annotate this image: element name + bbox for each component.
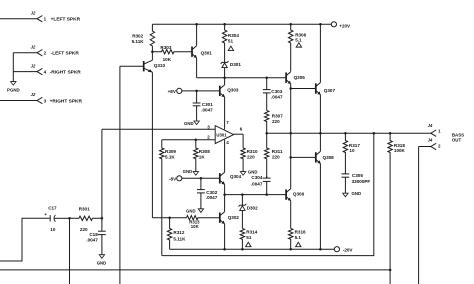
svg-text:R301: R301: [79, 207, 90, 212]
flag marker R314: [246, 242, 251, 246]
svg-text:C304: C304: [251, 175, 262, 180]
svg-text:GND: GND: [186, 209, 196, 214]
svg-text:GND: GND: [352, 191, 362, 196]
svg-text:Q302: Q302: [228, 215, 240, 220]
svg-text:100K: 100K: [394, 148, 406, 153]
svg-text:R314: R314: [246, 230, 257, 235]
svg-text:R307: R307: [272, 113, 283, 118]
ground below C18: [99, 255, 104, 259]
transistor Q304: [219, 173, 221, 183]
svg-text:OUT: OUT: [452, 138, 462, 143]
resistor R307: [265, 111, 269, 134]
svg-text:3: 3: [207, 124, 210, 129]
transistor Q307: [315, 83, 317, 93]
svg-text:U301: U301: [216, 133, 227, 138]
svg-text:Q306: Q306: [293, 192, 305, 197]
wire bottom bus: [0, 269, 390, 271]
svg-text:R310: R310: [247, 149, 258, 154]
svg-text:.0047: .0047: [251, 182, 263, 187]
flag marker R304: [228, 46, 233, 50]
svg-text:Q305: Q305: [294, 75, 306, 80]
svg-text:51: 51: [246, 235, 252, 240]
svg-text:J4: J4: [428, 138, 433, 143]
transistor Q306: [285, 189, 287, 199]
wire input from left edge: [0, 218, 50, 261]
resistor R308: [194, 140, 198, 172]
svg-text:10K: 10K: [191, 224, 200, 229]
ground below C301: [194, 121, 199, 125]
svg-text:C305: C305: [352, 173, 363, 178]
svg-text:6: 6: [240, 126, 243, 131]
svg-text:C303: C303: [271, 89, 282, 94]
wire U301 pin 6 output: [234, 133, 244, 135]
resistor R318: [388, 133, 392, 284]
svg-text:J2: J2: [31, 63, 36, 68]
node R301/C18: [101, 217, 104, 220]
resistor R314: [240, 228, 244, 249]
svg-text:-20V: -20V: [343, 247, 354, 252]
transistor Q305: [285, 73, 287, 83]
resistor R313: [187, 216, 220, 220]
svg-text:R302: R302: [132, 33, 143, 38]
svg-text:J4: J4: [428, 123, 433, 128]
svg-text:10: 10: [349, 148, 355, 153]
wire Q304 emitter bus: [225, 194, 287, 196]
wire Q301/D301/C303/Q305 bus: [197, 77, 287, 79]
svg-text:4: 4: [44, 70, 47, 75]
capacitor C304: [266, 176, 268, 178]
svg-text:1K: 1K: [199, 154, 206, 159]
resistor R311: [265, 133, 269, 178]
svg-text:Q308: Q308: [323, 155, 335, 160]
svg-text:R308: R308: [199, 149, 210, 154]
connector J2 pin 4: [37, 68, 42, 74]
svg-text:1: 1: [438, 129, 441, 134]
svg-text:GND: GND: [184, 121, 194, 126]
connector J4 pin 1: [431, 130, 436, 136]
capacitor C301: [196, 91, 198, 103]
svg-text:GND: GND: [248, 169, 258, 174]
wire J4-2 down: [418, 147, 420, 284]
transistor Q303: [219, 86, 221, 96]
svg-text:+20V: +20V: [339, 23, 350, 28]
node rail junctions: [195, 23, 198, 26]
svg-text:.0047: .0047: [86, 238, 98, 243]
transistor Q308: [315, 152, 317, 162]
wire -20V rail: [170, 248, 335, 250]
svg-text:-LEFT SPKR: -LEFT SPKR: [51, 51, 80, 57]
wire output rail to J4-1: [267, 132, 431, 134]
wire to J2 pin 1: [0, 18, 37, 20]
svg-text:J2: J2: [31, 92, 36, 97]
resistor R317: [343, 133, 347, 174]
wire Q310 base: [120, 65, 144, 67]
svg-text:220: 220: [80, 227, 88, 232]
svg-text:R317: R317: [349, 143, 360, 148]
svg-text:5.1K: 5.1K: [165, 154, 175, 159]
resistor R302: [150, 24, 154, 51]
svg-text:R312: R312: [173, 230, 184, 235]
wire J2-2 to PGND: [12, 53, 14, 82]
svg-text:D301: D301: [230, 62, 241, 67]
svg-text:+RIGHT SPKR: +RIGHT SPKR: [50, 98, 83, 104]
resistor R310: [242, 134, 244, 148]
svg-text:5.1: 5.1: [295, 38, 302, 43]
wire -8V to Q304 base: [182, 177, 220, 179]
svg-text:Q304: Q304: [230, 174, 242, 179]
wire Q310 base down to bottom edge: [119, 66, 121, 284]
wire feedback loop: [162, 133, 374, 255]
node C17/R301: [68, 217, 71, 220]
capacitor C302: [200, 178, 202, 189]
svg-text:+8V: +8V: [168, 89, 177, 94]
capacitor C17: [49, 215, 51, 221]
connector J2 pin 3: [37, 97, 42, 103]
flag marker R306: [296, 43, 301, 47]
svg-text:Q310: Q310: [154, 63, 166, 68]
svg-text:+LEFT SPKR: +LEFT SPKR: [51, 17, 81, 23]
node R302/R303/Q310: [151, 50, 154, 53]
wire junction down to bottom edge: [69, 218, 71, 284]
wire to J2 pin 4: [13, 71, 37, 73]
wire U301 pin 4: [224, 140, 226, 173]
svg-text:220: 220: [272, 119, 280, 124]
svg-text:220: 220: [272, 154, 280, 159]
svg-text:3: 3: [44, 99, 47, 104]
wire +20V rail: [152, 23, 331, 25]
svg-text:4: 4: [226, 140, 229, 145]
svg-text:-8V: -8V: [169, 176, 177, 181]
resistor R304: [222, 24, 226, 62]
resistor R309: [160, 140, 164, 256]
flag marker R316: [296, 242, 301, 246]
svg-text:J2: J2: [31, 44, 36, 49]
svg-text:R311: R311: [272, 149, 283, 154]
svg-text:R309: R309: [165, 149, 176, 154]
wire Q305 emitter chain: [290, 84, 292, 189]
svg-text:Q301: Q301: [201, 50, 213, 55]
svg-text:.0047: .0047: [271, 94, 283, 99]
wire Q307 base: [291, 88, 316, 90]
connector J2 pin 1: [37, 16, 42, 22]
svg-text:C302: C302: [206, 190, 217, 195]
svg-text:5.11K: 5.11K: [132, 39, 145, 44]
svg-text:C18: C18: [89, 232, 98, 237]
svg-text:R306: R306: [295, 32, 306, 37]
terminal -20V: [334, 247, 339, 252]
svg-text:10: 10: [50, 227, 56, 232]
svg-text:+: +: [44, 212, 47, 217]
svg-text:R303: R303: [160, 45, 171, 50]
op-amp U301: [215, 126, 233, 144]
terminal +20V: [331, 22, 336, 27]
wire to J2 pin 3: [0, 100, 37, 102]
svg-text:10K: 10K: [163, 57, 172, 62]
svg-text:D302: D302: [247, 206, 258, 211]
transistor Q301: [191, 47, 193, 57]
wire C18 node up to U301 pin 3: [101, 129, 103, 218]
svg-text:-RIGHT SPKR: -RIGHT SPKR: [50, 70, 82, 76]
svg-text:R318: R318: [394, 143, 405, 148]
resistor R303: [152, 50, 192, 54]
ground below C302: [198, 209, 203, 213]
svg-text:PGND: PGND: [7, 87, 20, 92]
svg-text:.0047: .0047: [201, 107, 213, 112]
capacitor C18: [101, 218, 103, 231]
svg-text:51: 51: [228, 38, 234, 43]
wire to J4 pin 2: [419, 146, 431, 148]
svg-text:2: 2: [207, 135, 210, 140]
ground below R310: [240, 172, 245, 176]
diode D301: [222, 61, 227, 63]
svg-text:Q307: Q307: [324, 88, 336, 93]
connector J2 pin 2: [37, 50, 42, 56]
wire U301 pin 2 input: [162, 139, 215, 141]
wire to J2 pin 2: [13, 52, 37, 54]
svg-text:220: 220: [247, 154, 255, 159]
svg-text:Q303: Q303: [227, 88, 239, 93]
wire +8V to Q303 base: [182, 90, 220, 92]
resistor R306: [289, 24, 293, 71]
ground below R308: [193, 172, 198, 176]
svg-text:R304: R304: [228, 33, 239, 38]
wire U301 pin 3 input: [102, 128, 215, 130]
capacitor C305: [344, 173, 346, 175]
svg-text:7: 7: [226, 120, 229, 125]
svg-text:2: 2: [438, 144, 441, 149]
ground below C305: [343, 193, 348, 197]
resistor R301: [70, 216, 102, 220]
svg-text:R316: R316: [295, 230, 306, 235]
svg-text:5.1: 5.1: [295, 235, 302, 240]
svg-text:2: 2: [44, 51, 47, 56]
resistor R316: [289, 228, 293, 249]
diode D302: [241, 195, 243, 205]
svg-text:GND: GND: [97, 261, 107, 266]
capacitor C303: [266, 78, 268, 90]
svg-text:33000PF: 33000PF: [352, 179, 371, 184]
ground PGND: [11, 82, 16, 86]
node R318/bottom wire: [389, 269, 392, 272]
svg-text:C17: C17: [48, 205, 57, 210]
transistor Q302: [219, 213, 221, 223]
connector J4 pin 2: [431, 143, 436, 149]
svg-text:1: 1: [44, 17, 47, 22]
transistor Q310: [143, 61, 145, 71]
svg-text:5.11K: 5.11K: [173, 237, 186, 242]
svg-text:.0047: .0047: [206, 195, 218, 200]
wire Q310 emitter to R313: [152, 217, 186, 219]
resistor R312: [167, 218, 171, 250]
svg-text:GND: GND: [183, 169, 193, 174]
svg-text:J2: J2: [31, 10, 36, 15]
wire Q308 base: [291, 156, 316, 158]
